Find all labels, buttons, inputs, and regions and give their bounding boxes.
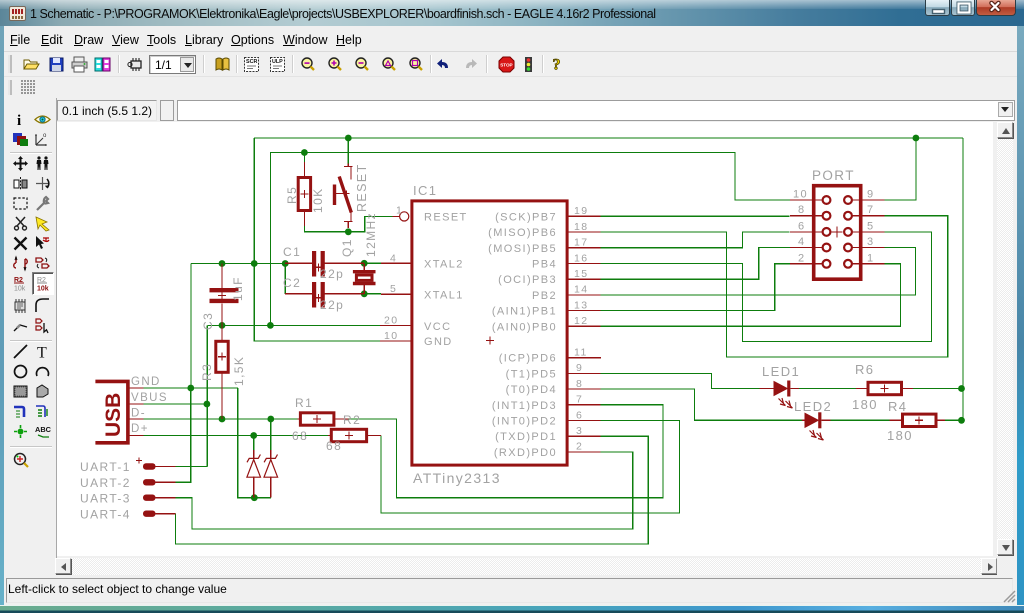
add tool (34, 235, 51, 252)
PORT pin circles (823, 196, 852, 268)
erc tool (12, 451, 29, 468)
svg-text:7: 7 (576, 394, 583, 406)
svg-text:XTAL1: XTAL1 (424, 290, 464, 302)
svg-text:ULP: ULP (272, 59, 283, 65)
svg-text:6: 6 (576, 409, 583, 421)
wire USB D+ row to R2 (144, 435, 328, 437)
crystal Q1 12MHz (340, 212, 378, 294)
junction tool (12, 423, 29, 440)
svg-text:RESET: RESET (355, 163, 369, 212)
svg-text:D-: D- (131, 408, 146, 420)
svg-text:4: 4 (390, 252, 397, 264)
smash tool (12, 297, 29, 314)
svg-text:UART-2: UART-2 (80, 476, 131, 490)
svg-text:1: 1 (396, 204, 403, 216)
resistor R6 (852, 362, 913, 412)
wire USB VBUS row (144, 403, 208, 405)
wire IC pin 16 to PORT pin 5 (601, 232, 932, 342)
PORT pin stubs right (853, 200, 885, 264)
wire IC pin 9 to LED1 (601, 373, 760, 388)
svg-text:17: 17 (574, 237, 588, 249)
IC1 left pin stubs (380, 212, 412, 341)
svg-text:(ICP)PD6: (ICP)PD6 (499, 353, 557, 365)
junction XTAL2 node (361, 260, 368, 267)
wire R6 to GND rail (911, 388, 962, 390)
svg-text:11: 11 (574, 347, 588, 359)
cut tool (scissors) (12, 215, 29, 232)
junction zener bottoms (251, 494, 258, 501)
show tool (eye) (34, 111, 51, 128)
svg-text:180: 180 (852, 397, 878, 412)
bus tool (12, 403, 29, 420)
svg-text:C1: C1 (283, 245, 301, 259)
info tool (12, 111, 29, 128)
svg-text:3: 3 (867, 236, 875, 248)
node UART-3 pad (80, 492, 176, 506)
IC1 right pin stubs (569, 216, 601, 452)
svg-text:19: 19 (574, 205, 588, 217)
svg-text:UART-4: UART-4 (80, 508, 131, 522)
junction D+ / zener D1 (250, 432, 257, 439)
svg-text:PORT: PORT (812, 168, 855, 183)
svg-text:1,5K: 1,5K (232, 356, 246, 386)
svg-text:9: 9 (576, 362, 583, 374)
wire LED1 to R6 (799, 388, 856, 390)
rect tool (12, 383, 29, 400)
diode D2 zener (264, 450, 278, 498)
wire RESET net row to IC pin 1 (304, 216, 392, 231)
svg-text:1uF: 1uF (231, 276, 245, 301)
svg-text:10: 10 (384, 330, 398, 342)
svg-text:C2: C2 (283, 276, 301, 290)
resistor R3 (200, 325, 246, 419)
svg-text:4: 4 (798, 236, 806, 248)
svg-text:XTAL2: XTAL2 (424, 258, 464, 270)
node UART-2 pad (80, 476, 176, 490)
svg-text:PB2: PB2 (532, 290, 557, 302)
svg-text:22p: 22p (320, 298, 344, 312)
invoke tool (34, 317, 51, 334)
svg-text:GND: GND (424, 336, 453, 348)
junction GND net at C1/C2 left (282, 260, 289, 267)
junction GND rail / switch (345, 135, 352, 142)
polygon tool (34, 383, 51, 400)
rotate tool (34, 175, 51, 192)
wire IC pin 13 to PORT pin 2 (601, 264, 790, 311)
svg-text:(INT1)PD3: (INT1)PD3 (492, 400, 557, 412)
resistor R2 (326, 413, 381, 453)
net tool (34, 403, 51, 420)
svg-text:RESET: RESET (424, 211, 468, 223)
wire GND rail left drop to C1/C3 row (254, 138, 380, 341)
wire RESET switch top to GND rail (347, 138, 349, 164)
wire GND rail drop to LED resistors (962, 138, 964, 420)
svg-text:(T1)PD5: (T1)PD5 (506, 368, 557, 380)
mark tool (34, 131, 51, 148)
wire IC pin 12 to PORT pin 1 (601, 264, 901, 327)
svg-text:i: i (17, 113, 21, 128)
junction D- / R3 bottom (219, 416, 226, 423)
junction VCC row / VCC rail (267, 322, 274, 329)
svg-text:IC1: IC1 (413, 183, 437, 198)
miter tool (34, 297, 51, 314)
junction GND rail / PORT9 (913, 135, 920, 142)
wire GND net row C3/C1 (191, 263, 285, 265)
op-amp IC1 ATTiny2313 body (412, 183, 567, 486)
delete tool (12, 235, 29, 252)
node UART-4 pad (80, 508, 176, 522)
wire C2 left jog (284, 264, 286, 294)
svg-text:(OCI)PB3: (OCI)PB3 (498, 274, 557, 286)
wire LED2 to R4 (831, 419, 890, 421)
LED2 (794, 399, 832, 440)
svg-text:o: o (43, 133, 47, 139)
mirror tool (12, 175, 29, 192)
svg-text:7: 7 (867, 204, 875, 216)
svg-text:STOP: STOP (500, 63, 512, 68)
svg-text:(T0)PD4: (T0)PD4 (506, 384, 557, 396)
svg-text:5: 5 (867, 220, 875, 232)
svg-text:(RXD)PD0: (RXD)PD0 (494, 447, 557, 459)
svg-text:10: 10 (793, 189, 808, 201)
svg-text:LED1: LED1 (762, 364, 800, 379)
group tool (12, 195, 29, 212)
node UART-1 pad (80, 458, 176, 475)
svg-text:UART-3: UART-3 (80, 492, 131, 506)
svg-text:R5: R5 (285, 186, 299, 204)
svg-text:R3: R3 (200, 363, 214, 381)
svg-text:2: 2 (798, 252, 806, 264)
junction VCC row / C3-R3 (219, 322, 226, 329)
copy tool (34, 155, 51, 172)
svg-text:14: 14 (574, 284, 588, 296)
gateswap tool (34, 255, 51, 272)
svg-text:180: 180 (887, 428, 913, 443)
svg-text:15: 15 (574, 268, 588, 280)
junction GND net at x254 (251, 260, 258, 267)
split tool (12, 317, 29, 334)
wire XTAL1 net to IC pin 5 (364, 293, 381, 295)
svg-text:SCR: SCR (246, 59, 257, 65)
svg-text:USB: USB (102, 393, 125, 437)
svg-text:12MHz: 12MHz (364, 212, 378, 257)
svg-text:ATTiny2313: ATTiny2313 (413, 470, 501, 486)
svg-text:(INT0)PD2: (INT0)PD2 (492, 416, 557, 428)
svg-text:20: 20 (384, 314, 398, 326)
wire IC pin 15 to PORT pin 4 (601, 248, 790, 280)
wire VCC rail (270, 153, 790, 326)
IC1 pin numbers (384, 204, 588, 452)
svg-text:VBUS: VBUS (131, 392, 168, 404)
wire R1 out to IC pin 7 (D-) (348, 405, 663, 498)
wire GND drop to zener junction (238, 388, 271, 498)
text tool (34, 343, 51, 360)
IC1 right pin names (488, 211, 557, 459)
wire UART-3 run to IC pin 2 (176, 452, 633, 529)
wire IC pin 17 to PORT pin 6 (601, 232, 790, 248)
wire GND rail to PORT pin 9 (885, 138, 916, 200)
resistor R1 (292, 396, 348, 443)
capacitor C3 (201, 264, 245, 331)
label tool (34, 423, 51, 440)
svg-text:?: ? (553, 57, 561, 73)
transistor-like pushbutton S1 RESET switch (335, 163, 370, 228)
wire R2 out to IC pin 6 (D+) (381, 421, 680, 514)
svg-text:UART-1: UART-1 (80, 460, 131, 474)
svg-text:LED2: LED2 (794, 399, 832, 414)
svg-text:68: 68 (292, 429, 308, 443)
connector SV1 PORT (812, 168, 861, 279)
pinswap tool (12, 255, 29, 272)
wire USB GND row (144, 387, 238, 389)
wire IC pin 8 to LED2 (601, 389, 802, 420)
move tool (12, 155, 29, 172)
PORT pin numbers (793, 189, 875, 265)
junction RESET net / switch bottom (345, 228, 352, 235)
svg-text:GND: GND (131, 376, 161, 388)
wire GND top rail (254, 137, 963, 139)
wire IC pin 19 to PORT pin 8 (601, 215, 790, 217)
diode D1 zener (247, 450, 261, 498)
capacitor C1 (283, 245, 364, 281)
value tool (active) (32, 272, 54, 295)
wire zener D1 top lead (253, 436, 255, 451)
junction GND net at C3 top (219, 260, 226, 267)
svg-text:10k: 10k (14, 286, 26, 293)
wire UART-4 run to IC pin 3 (176, 436, 649, 544)
junction D- / zener D2 (267, 416, 274, 423)
IC1 left pin names (424, 211, 468, 348)
wire UART-1 to VBUS vertical (176, 466, 208, 468)
wire R5 top lead green (303, 153, 305, 163)
junction R4 / GND rail (958, 417, 965, 424)
resistor R4 (887, 399, 945, 443)
wire USB D- row to R1 (144, 418, 298, 420)
svg-text:R6: R6 (855, 362, 874, 377)
change tool (wrench) (34, 195, 51, 212)
svg-text:(AIN0)PB0: (AIN0)PB0 (492, 321, 557, 333)
junction USB GND row (187, 385, 194, 392)
wire tool (12, 343, 29, 360)
svg-text:68: 68 (326, 439, 342, 453)
svg-text:13: 13 (574, 299, 588, 311)
paste tool (34, 215, 51, 232)
svg-text:PB4: PB4 (532, 259, 557, 271)
junction VBUS row (204, 401, 211, 408)
svg-text:(AIN1)PB1: (AIN1)PB1 (492, 306, 557, 318)
svg-text:ABC: ABC (35, 425, 51, 434)
PORT pin stubs left (790, 200, 822, 264)
svg-text:8: 8 (576, 378, 583, 390)
svg-text:(TXD)PD1: (TXD)PD1 (495, 431, 557, 443)
wire VCC row to IC pin20 (207, 324, 380, 326)
wire zener D2 top lead (270, 419, 272, 450)
wire XTAL2 net to IC pin 4 (364, 262, 381, 264)
junction XTAL1 node (361, 290, 368, 297)
svg-text:(MISO)PB6: (MISO)PB6 (488, 227, 557, 239)
connector X1 USB (95, 376, 168, 443)
svg-text:VCC: VCC (424, 321, 451, 333)
svg-text:R4: R4 (888, 399, 907, 414)
junction R6 / GND rail (958, 385, 965, 392)
junction VCC rail / R5 top (301, 149, 308, 156)
wire IC pin 18 to PORT pin 7 (601, 216, 948, 357)
svg-text:10K: 10K (311, 187, 325, 213)
svg-text:6: 6 (798, 220, 806, 232)
svg-text:12: 12 (574, 315, 588, 327)
display tool (12, 131, 29, 148)
capacitor C2 (283, 276, 364, 312)
arc tool (34, 363, 51, 380)
svg-text:1: 1 (867, 252, 875, 264)
wire R4 to GND rail (945, 419, 962, 421)
name tool (12, 275, 29, 292)
svg-text:(MOSI)PB5: (MOSI)PB5 (488, 243, 557, 255)
svg-text:18: 18 (574, 221, 588, 233)
svg-text:D+: D+ (131, 423, 149, 435)
svg-text:R1: R1 (295, 396, 313, 410)
svg-text:9: 9 (867, 189, 875, 201)
wire VBUS vertical to UART-1 (206, 325, 208, 466)
svg-text:C3: C3 (201, 312, 215, 330)
LED1 (760, 364, 801, 408)
resistor R5 (285, 162, 325, 226)
svg-text:8: 8 (798, 204, 806, 216)
svg-text:3: 3 (576, 425, 583, 437)
svg-text:5: 5 (390, 283, 397, 295)
svg-text:16: 16 (574, 252, 588, 264)
circle tool (12, 363, 29, 380)
wire UART-2 to GND vertical (176, 388, 191, 482)
wire IC pin 14 to PORT pin 3 (601, 248, 916, 295)
svg-text:T: T (37, 345, 47, 361)
svg-text:(SCK)PB7: (SCK)PB7 (495, 211, 557, 223)
svg-text:R2: R2 (343, 413, 361, 427)
svg-text:10k: 10k (37, 286, 49, 293)
svg-text:Q1: Q1 (340, 238, 354, 257)
wire GND net drop to USB GND (190, 264, 192, 389)
svg-text:2: 2 (576, 441, 583, 453)
svg-text:22p: 22p (320, 267, 344, 281)
